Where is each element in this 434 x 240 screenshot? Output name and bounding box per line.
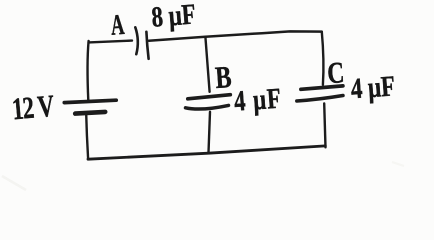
capacitor C3 top plate (C) [301,86,343,89]
svg-text:4 μF: 4 μF [350,70,396,105]
svg-text:8 μF: 8 μF [150,0,197,33]
wire right side upper (corner to C) [322,32,324,85]
capacitor C1 left plate (A) [135,27,138,54]
wire top from A to top-right corner [149,31,322,40]
battery V1 long plate [64,100,116,102]
wire top-left segment [89,41,132,43]
svg-text:12 V: 12 V [11,89,56,127]
capacitor C2 top plate (B) [188,95,231,99]
wire bottom [88,146,325,159]
faint scan smudge right [392,162,404,166]
wire left side upper [88,41,89,101]
svg-text:C: C [326,55,345,90]
svg-text:4 μF: 4 μF [233,82,282,118]
battery V1 short plate [75,112,105,114]
capacitor C3 bottom plate (C) [297,96,343,102]
capacitor C1 right plate (A) [146,32,148,59]
wire middle branch upper (node to B) [205,37,209,92]
wire right side lower (C to bottom corner) [324,103,325,147]
svg-text:B: B [214,60,232,96]
capacitor C2 bottom plate (B) [186,105,229,109]
faint scan smudge bottom-left [2,176,26,190]
wire left side lower [86,114,88,159]
svg-text:A: A [110,9,126,42]
wire middle branch lower (B to bottom) [209,112,211,153]
